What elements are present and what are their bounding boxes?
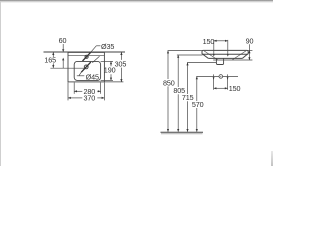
- deck hole mark left: [213, 54, 215, 56]
- dimension 150 top line: [214, 40, 228, 42]
- dimension 280 extension line right: [100, 83, 102, 94]
- body trapezoid left side: [203, 54, 208, 58]
- svg-text:90: 90: [246, 36, 254, 45]
- dimension 805 bottom arrow: [177, 129, 179, 132]
- dimension 370 extension line right: [103, 83, 105, 101]
- svg-text:60: 60: [59, 36, 67, 45]
- dimension 60 upper arrow: [62, 49, 64, 52]
- dimension 90 top arrow: [248, 50, 250, 53]
- dimension 60 stem above wall: [62, 44, 64, 49]
- dimension 150 bottom line: [214, 87, 228, 89]
- level line 805: [177, 54, 203, 56]
- inner section diagonal right: [232, 51, 246, 60]
- dimension 60 lower arrow: [62, 58, 64, 61]
- dimension 90 extension top: [248, 49, 252, 51]
- dimension 150 top extension left: [213, 40, 215, 55]
- dimension 190 extension line bottom (bowl bottom): [101, 79, 113, 81]
- dimension 305 line: [120, 52, 122, 60]
- dimension 90 bottom arrow: [248, 57, 250, 60]
- level line 570: [196, 75, 238, 77]
- dimension 370 extension line left: [67, 83, 69, 101]
- body trapezoid right side: [242, 54, 247, 58]
- wall drain outlet circle: [219, 75, 223, 79]
- dimension 305 top arrow: [120, 52, 122, 55]
- dimension 190 top arrow: [110, 61, 112, 64]
- dimension 150 top extension right: [227, 40, 229, 55]
- dimension 280 extension line left: [73, 83, 75, 94]
- dimension 165 bottom arrow: [52, 65, 54, 68]
- svg-text:Ø35: Ø35: [101, 42, 114, 51]
- floor line: [161, 131, 204, 133]
- dimension 570 line: [196, 76, 198, 101]
- dimension 150 bottom left arrow: [214, 87, 217, 89]
- dimension 850 bottom arrow: [167, 129, 169, 132]
- dimension 570 top arrow: [196, 76, 198, 79]
- outlet mark right: [227, 77, 229, 80]
- tap hole slash: [83, 52, 91, 61]
- svg-text:165: 165: [44, 56, 56, 65]
- dimension 805 top arrow: [177, 55, 179, 58]
- dimension 90 extension bottom: [213, 59, 252, 61]
- dimension 805 line: [177, 55, 179, 87]
- dimension 190 line: [110, 61, 112, 66]
- dimension 190 extension line top (bowl top): [101, 60, 113, 62]
- deck hole mark right: [227, 54, 229, 56]
- leader line for Ø45: [77, 75, 85, 77]
- dimension 190 bottom arrow: [110, 78, 112, 81]
- dimension 280 right arrow: [98, 90, 101, 92]
- dimension 715 line: [187, 63, 189, 94]
- dimension 280 left arrow: [74, 90, 77, 92]
- dimension 150 bottom extension right: [227, 74, 229, 89]
- svg-text:150: 150: [229, 84, 241, 93]
- wall line (top view): [44, 51, 126, 53]
- level line 850: [168, 50, 202, 52]
- dimension 60 lower stem: [62, 60, 64, 68]
- dimension 305 extension line bottom (rect front): [104, 81, 123, 83]
- drain hole symbol: [84, 65, 88, 69]
- dimension 150 bottom right arrow: [225, 87, 228, 89]
- outlet mark left: [213, 77, 215, 80]
- level line 715: [187, 62, 217, 64]
- dimension 850 top arrow: [167, 51, 169, 54]
- dimension 715 bottom arrow: [186, 129, 188, 132]
- floor hatching: [161, 133, 203, 134]
- dimension 150 bottom extension left: [213, 74, 215, 89]
- dimension 165 line lower part: [52, 63, 54, 68]
- dimension 165 extension line at drain level: [50, 67, 84, 69]
- basin outer rectangle (top view): [68, 52, 104, 82]
- svg-text:570: 570: [192, 100, 204, 109]
- dimension 165 top arrow: [52, 52, 54, 55]
- dimension 165 line upper part: [52, 52, 54, 57]
- rear deck line: [68, 54, 104, 56]
- rim bar (side profile): [202, 50, 248, 54]
- dimension 570 bottom arrow: [196, 129, 198, 132]
- dimension 370 right arrow: [102, 97, 105, 99]
- svg-text:370: 370: [84, 94, 96, 103]
- dimension 370 left arrow: [68, 97, 71, 99]
- dimension 280 line: [74, 90, 82, 92]
- inner section diagonal left: [204, 51, 218, 60]
- leader line for Ø35: [96, 45, 100, 47]
- dimension 150 top right arrow: [225, 40, 228, 42]
- dimension 370 line: [68, 97, 82, 99]
- dimension 90 line: [248, 44, 250, 60]
- drain hole slash: [81, 62, 91, 72]
- dimension 850 line: [167, 51, 169, 79]
- basin bowl rounded rectangle: [74, 61, 100, 80]
- dimension 305 bottom arrow: [120, 79, 122, 82]
- dimension 715 top arrow: [186, 63, 188, 66]
- svg-text:150: 150: [203, 37, 215, 46]
- drain stub: [216, 59, 223, 65]
- svg-text:305: 305: [115, 60, 127, 69]
- tap hole symbol: [85, 55, 88, 58]
- svg-text:Ø45: Ø45: [86, 72, 99, 81]
- body bottom: [208, 57, 242, 59]
- overflow slash: [92, 56, 99, 63]
- dimension 150 top left arrow: [214, 40, 217, 42]
